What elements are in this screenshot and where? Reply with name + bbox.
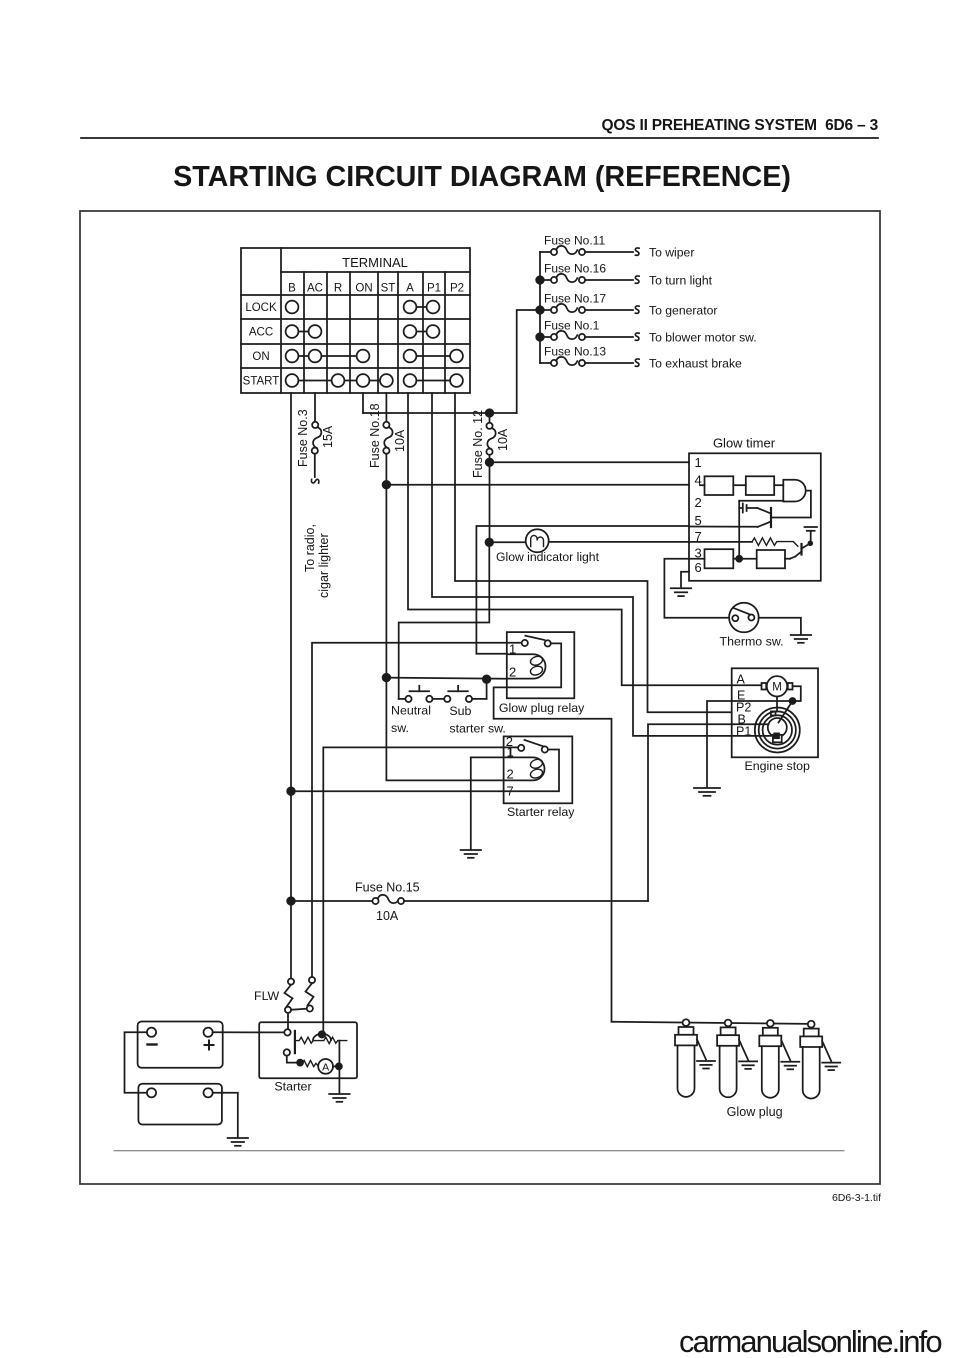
glow timer block C bbox=[705, 549, 734, 568]
glow plug G3 bbox=[759, 1020, 799, 1098]
svg-text:STARTING CIRCUIT DIAGRAM (REFE: STARTING CIRCUIT DIAGRAM (REFERENCE) bbox=[173, 161, 791, 193]
ignition switch table frame bbox=[241, 248, 470, 393]
ground glow timer pin 6 bbox=[671, 588, 691, 596]
fuse F1 (Fuse No.1) row bbox=[540, 319, 757, 345]
wire P1 column wrap to engine stop P1 bbox=[432, 393, 732, 736]
table contact links START row bbox=[292, 380, 386, 382]
thermo switch S1 bbox=[729, 603, 759, 633]
starter contact bar bbox=[294, 1031, 296, 1053]
diagram frame bbox=[80, 211, 880, 1184]
wire thermo to ground bbox=[759, 618, 801, 634]
svg-text:2: 2 bbox=[695, 495, 702, 510]
svg-text:15A: 15A bbox=[321, 425, 335, 448]
svg-text:6D6-3-1.tif: 6D6-3-1.tif bbox=[832, 1192, 881, 1204]
key cylinder outer circles bbox=[755, 708, 800, 753]
starter box bbox=[259, 1022, 357, 1078]
node B line / fuse15 bbox=[287, 897, 295, 905]
wire motor to E node bbox=[793, 686, 801, 701]
svg-text:P1: P1 bbox=[427, 283, 441, 295]
glow plug G2 bbox=[717, 1020, 757, 1098]
svg-text:B: B bbox=[288, 283, 296, 295]
P1 contact square bbox=[774, 733, 779, 738]
svg-text:Sub: Sub bbox=[449, 704, 471, 718]
header rule bbox=[81, 137, 878, 139]
glow plug relay switch bbox=[525, 636, 544, 640]
svg-text:2: 2 bbox=[509, 665, 516, 680]
node ammeter right bbox=[336, 1063, 342, 1069]
wire fuse No.3 to radio feed bbox=[314, 454, 316, 477]
ammeter A1 bbox=[318, 1059, 333, 1074]
glow indicator lamp bbox=[526, 529, 549, 552]
table contact circles LOCK row bbox=[286, 301, 463, 387]
wire AND output loop bbox=[772, 491, 811, 518]
svg-text:ACC: ACC bbox=[249, 327, 273, 339]
table contact circles START row bbox=[286, 374, 299, 387]
node ST/sub starter junction bbox=[383, 674, 391, 682]
starter terminal circle bbox=[284, 1029, 290, 1035]
svg-text:R: R bbox=[334, 283, 342, 295]
ground starter relay bbox=[461, 850, 481, 858]
engine stop box bbox=[732, 668, 818, 757]
node timer bottom junction bbox=[736, 556, 742, 562]
wire glow timer pin 3 to thermo switch bbox=[664, 559, 729, 618]
wire glow timer pin 5 to glow plug relay pin 1 bbox=[476, 526, 689, 654]
svg-text:AC: AC bbox=[307, 283, 323, 295]
starter bridge arc bbox=[313, 1034, 331, 1040]
glow plug relay coil bbox=[507, 654, 546, 678]
footer thin rule inside frame bbox=[114, 1150, 844, 1152]
resistor to ammeter bbox=[300, 1060, 318, 1066]
wire second terminal to resistor bbox=[287, 1056, 297, 1063]
wire starter relay feed from solenoid bbox=[323, 747, 518, 1034]
node bus/fuse12 junction bbox=[486, 409, 494, 417]
battery B1 minus bbox=[148, 1043, 157, 1045]
wire fuse12 to glow timer pin 1 bbox=[490, 461, 690, 463]
wire pin 6 to ground bbox=[681, 572, 689, 588]
wire E pin to ground bbox=[707, 701, 793, 787]
wire relay switch output to B line bbox=[291, 750, 559, 792]
svg-text:cigar lighter: cigar lighter bbox=[317, 533, 331, 598]
fuse F13 (Fuse No.13) row bbox=[540, 345, 742, 371]
svg-text:10A: 10A bbox=[376, 909, 399, 923]
svg-text:carmanualsonline.info: carmanualsonline.info bbox=[679, 1324, 941, 1358]
svg-text:Starter: Starter bbox=[274, 1080, 311, 1094]
svg-text:START: START bbox=[243, 376, 280, 388]
svg-text:ON: ON bbox=[355, 283, 372, 295]
wire B pin into keyhole bbox=[732, 723, 769, 725]
fuse F12 (Fuse No. 12 10A) bbox=[489, 413, 491, 423]
connector hook to radio bbox=[311, 479, 318, 483]
wire ST line down to starter relay coil bbox=[385, 454, 387, 780]
wire B column down to FLW bbox=[290, 393, 292, 979]
starter relay pin1 stub bbox=[510, 749, 512, 757]
table contact links ACC row bbox=[292, 331, 315, 333]
glow indicator lamp wire left bbox=[489, 541, 526, 543]
wires bottom chain bbox=[689, 558, 705, 560]
node bus/fuse1 bbox=[536, 333, 544, 341]
neutral switch S2 bbox=[399, 686, 445, 702]
transistor Q2 bbox=[810, 531, 812, 542]
svg-text:sw.: sw. bbox=[391, 721, 409, 735]
fusible link FLW left bbox=[288, 979, 294, 985]
svg-text:Fuse No.15: Fuse No.15 bbox=[355, 881, 420, 895]
starter relay box bbox=[504, 736, 573, 803]
node bus/feed bbox=[536, 306, 544, 314]
svg-text:M: M bbox=[772, 682, 782, 694]
starter relay switch bbox=[525, 740, 544, 746]
wire ST junction to glow plug relay pin 2 bbox=[386, 678, 506, 679]
ground small inside timer bbox=[805, 526, 818, 528]
svg-text:Engine stop: Engine stop bbox=[745, 759, 811, 773]
wire feed bus under table bbox=[363, 412, 517, 414]
glow timer block D bbox=[757, 550, 785, 568]
glow indicator lamp wire right to pin 7 bbox=[549, 541, 689, 543]
battery B1 bbox=[138, 1022, 223, 1068]
battery B2 bbox=[138, 1084, 222, 1125]
svg-text:ON: ON bbox=[252, 351, 269, 363]
wire FLW to starter terminal bbox=[287, 1013, 289, 1029]
wire bridge right down to ammeter node bbox=[338, 1041, 340, 1067]
wire P1 pin into keyhole bbox=[732, 735, 774, 737]
svg-text:TERMINAL: TERMINAL bbox=[342, 255, 408, 270]
key switch wiper diagonal bbox=[779, 701, 793, 723]
svg-text:To turn light: To turn light bbox=[649, 274, 713, 288]
node lamp junction bbox=[486, 539, 494, 547]
wire timer internal vertical bbox=[738, 501, 740, 559]
svg-text:To exhaust brake: To exhaust brake bbox=[649, 357, 742, 371]
wire battery B2 to ground bbox=[213, 1093, 238, 1137]
svg-text:QOS II PREHEATING SYSTEM 6D6: QOS II PREHEATING SYSTEM 6D6 – 3 bbox=[602, 117, 879, 134]
starter resistor bridge bbox=[296, 1037, 347, 1043]
ground battery bbox=[228, 1138, 248, 1146]
svg-text:ST: ST bbox=[381, 283, 396, 295]
svg-text:To generator: To generator bbox=[649, 304, 717, 318]
svg-text:1: 1 bbox=[695, 455, 702, 470]
fuse F3 (Fuse No.3 15A) bbox=[312, 422, 318, 428]
node B line / relay output bbox=[287, 787, 295, 795]
node glow relay pin2 junction bbox=[483, 675, 491, 683]
glow timer box bbox=[689, 453, 821, 581]
table contact circles ON row bbox=[286, 350, 299, 363]
AND gate U1 bbox=[783, 480, 805, 502]
svg-text:Fuse No. 12: Fuse No. 12 bbox=[471, 410, 485, 478]
battery B1 plus bbox=[205, 1044, 214, 1046]
svg-text:LOCK: LOCK bbox=[245, 302, 277, 314]
wire relay coil pin1 to ground bbox=[470, 757, 472, 849]
fuse F11 (Fuse No.11) row bbox=[540, 234, 694, 260]
wire battery B1 plus to starter bbox=[213, 1031, 285, 1033]
svg-text:starter sw.: starter sw. bbox=[449, 722, 505, 736]
svg-text:Fuse No.16: Fuse No.16 bbox=[544, 262, 606, 276]
fusible link FLW right bbox=[309, 977, 315, 983]
wire ammeter node to ground bbox=[338, 1066, 340, 1093]
glow plug bus wire bbox=[612, 1022, 809, 1024]
svg-text:Fuse No.1: Fuse No.1 bbox=[544, 319, 600, 333]
svg-text:Glow plug: Glow plug bbox=[727, 1105, 783, 1119]
svg-text:6: 6 bbox=[695, 560, 702, 575]
wire A column wrap to engine stop A bbox=[408, 393, 732, 685]
svg-text:2: 2 bbox=[507, 767, 514, 782]
table contact links ON row bbox=[292, 355, 363, 357]
ground starter bbox=[329, 1094, 349, 1102]
svg-text:Neutral: Neutral bbox=[391, 704, 431, 718]
glow timer block A bbox=[705, 476, 734, 495]
svg-text:Fuse No.13: Fuse No.13 bbox=[544, 345, 606, 359]
starter second terminal bbox=[284, 1049, 290, 1055]
wire motor bottom to cylinder bbox=[776, 697, 778, 712]
fuse F18 (Fuse No.18 10A) bbox=[383, 422, 389, 428]
fuse F16 (Fuse No.16) row bbox=[540, 262, 713, 288]
svg-text:Glow indicator light: Glow indicator light bbox=[496, 550, 600, 564]
node ST/glow timer pin4 junction bbox=[383, 481, 391, 489]
glow plug G4 bbox=[800, 1021, 840, 1099]
ground engine stop E bbox=[694, 788, 720, 796]
node fuse12 output bbox=[486, 459, 494, 467]
wire AC column to fuse No.3 bbox=[314, 393, 316, 422]
wires between timer blocks bbox=[700, 484, 705, 486]
svg-text:To wiper: To wiper bbox=[649, 246, 694, 260]
wire ST junction to glow timer pin 4 bbox=[386, 484, 689, 486]
svg-text:To radio,: To radio, bbox=[303, 524, 317, 572]
wire ST column to fuse No.18 bbox=[385, 393, 387, 422]
svg-text:Thermo sw.: Thermo sw. bbox=[720, 635, 784, 649]
motor M1 bbox=[732, 684, 762, 686]
table contact links LOCK row bbox=[410, 306, 433, 308]
wire battery series link bbox=[125, 1032, 147, 1093]
svg-text:Fuse No.3: Fuse No.3 bbox=[296, 409, 310, 467]
wire P2 column wrap to engine stop P2 bbox=[455, 393, 732, 712]
table contact circles ACC row bbox=[286, 325, 299, 338]
capacitor C1 bbox=[739, 507, 742, 509]
wire lamp node down to neutral sw line bbox=[399, 542, 490, 699]
fuse bank bus bbox=[539, 252, 541, 363]
wire fuse12 down to lamp node bbox=[489, 462, 491, 542]
wire ON column stub to bus bbox=[362, 393, 364, 413]
resistor R1 zigzag bbox=[752, 538, 798, 546]
wire bus riser to fuse bank bbox=[517, 310, 540, 413]
svg-text:FLW: FLW bbox=[254, 989, 280, 1003]
table grid lines bbox=[280, 248, 282, 393]
ground thermo switch bbox=[791, 635, 811, 643]
svg-text:P2: P2 bbox=[450, 283, 464, 295]
wire joining FLW bottoms bbox=[291, 1009, 307, 1010]
svg-text:Starter relay: Starter relay bbox=[507, 805, 575, 819]
node resistor left bbox=[297, 1060, 303, 1066]
glow plug relay box bbox=[507, 632, 575, 698]
glow timer block B bbox=[746, 476, 774, 495]
svg-text:A: A bbox=[322, 1061, 329, 1073]
svg-text:Fuse No.17: Fuse No.17 bbox=[544, 292, 606, 306]
wire pin5 internal to Q1 bbox=[689, 526, 758, 528]
svg-text:A: A bbox=[406, 283, 414, 295]
node bus/fuse16 bbox=[536, 276, 544, 284]
sub starter switch S3 bbox=[444, 686, 486, 702]
svg-text:Fuse No.18: Fuse No.18 bbox=[368, 403, 382, 468]
cylinder top notch bbox=[771, 711, 776, 715]
keyhole bbox=[768, 718, 787, 737]
svg-text:10A: 10A bbox=[496, 428, 510, 451]
starter relay coil bbox=[386, 757, 544, 780]
fuse F15 (Fuse No.15 10A) bbox=[291, 900, 372, 902]
svg-text:Glow plug relay: Glow plug relay bbox=[499, 701, 585, 715]
node E junction bbox=[790, 698, 796, 704]
wire sub starter up to relay pin2 node bbox=[486, 679, 488, 699]
glow plug G1 bbox=[675, 1019, 715, 1097]
node solenoid feed bbox=[319, 1031, 325, 1037]
wire fuse15 to engine stop B bbox=[648, 724, 732, 901]
wire relay switch output to glow plug feed bbox=[494, 643, 612, 1021]
transistor Q1 bbox=[770, 508, 772, 527]
svg-text:Glow timer: Glow timer bbox=[713, 436, 776, 451]
svg-text:To blower motor sw.: To blower motor sw. bbox=[649, 331, 757, 345]
wire FLW right riser to glow plug relay contact bbox=[312, 643, 522, 979]
svg-text:Fuse No.11: Fuse No.11 bbox=[544, 234, 605, 248]
svg-text:10A: 10A bbox=[393, 429, 407, 452]
fuse F17 (Fuse No.17) row bbox=[540, 292, 717, 318]
